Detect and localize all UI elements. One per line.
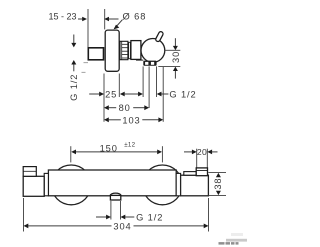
svg-text:Ø 68: Ø 68 [123, 12, 147, 22]
dimension 103 row [104, 117, 109, 122]
wall escutcheon (side view) [105, 30, 119, 71]
dimension 20: left arrow [184, 151, 193, 153]
bottom outlet G1/2: right arrow [121, 215, 126, 220]
bottom outlet dome [110, 193, 121, 198]
svg-text:80: 80 [119, 103, 131, 113]
dimension 30: top arrow [174, 38, 176, 46]
dimension 25 row: left arrow [89, 93, 100, 95]
svg-text:25: 25 [105, 90, 117, 100]
extension line 304 left [23, 198, 25, 232]
mixer bar body [48, 170, 176, 196]
G1/2 outlet leader arrow [157, 92, 162, 97]
knurled nut [120, 41, 128, 59]
vertical dimension of inlet union: top arrow [73, 35, 75, 44]
dimension 15-23 left arrow [78, 18, 83, 20]
svg-text:304: 304 [113, 221, 131, 231]
outlet union nut (dark) [143, 61, 156, 66]
dimension 38: top extension line [208, 172, 226, 174]
valve body block [131, 41, 141, 60]
bottom outlet extension lines [110, 201, 112, 220]
dimension 30: bottom extension line [158, 66, 180, 68]
dimension 20: right arrow [207, 150, 212, 155]
outlet nut facet windows [145, 62, 148, 65]
svg-text:150: 150 [100, 143, 118, 153]
extension line left union center [70, 146, 72, 162]
extension line right union center [161, 146, 163, 162]
dimension 38: down arrow [216, 191, 221, 195]
svg-text:G 1/2: G 1/2 [136, 213, 163, 223]
extension line handle front [162, 67, 164, 122]
extension line D (outlet right) [156, 66, 158, 97]
dimension 20: extension bars [196, 149, 198, 169]
left wall union escutcheon (circle) [51, 165, 91, 205]
svg-text:G 1/2: G 1/2 [69, 74, 79, 101]
right collar [176, 173, 180, 195]
svg-text:20: 20 [197, 147, 207, 157]
extension line C (outlet left) [142, 66, 144, 97]
wire: escutcheon back extension line [104, 9, 106, 29]
tick mark near square bottom [84, 62, 89, 64]
extension line A (escutcheon back) [103, 74, 105, 122]
extension line outlet axis [148, 66, 150, 108]
bottom outlet G1/2: left arrow [96, 216, 107, 218]
dimension 304 [24, 224, 29, 229]
leader line for diameter 68 [115, 20, 123, 29]
svg-text:103: 103 [122, 115, 140, 125]
extension line 304 right [208, 198, 210, 232]
hansgrohe logo (faint, bottom right) [231, 233, 243, 236]
temperature handle (left) [23, 176, 44, 196]
safety stop button inner line [23, 170, 36, 172]
valve neck ring [129, 42, 131, 58]
dimension 38: up arrow [216, 173, 221, 177]
body bottom lip line [136, 59, 143, 61]
handle circle (seen from side) [141, 39, 165, 63]
svg-text:30: 30 [171, 51, 181, 63]
extension line B (escutcheon front) [118, 74, 120, 98]
svg-text:15 - 23: 15 - 23 [48, 11, 76, 21]
tick mark above G1/2 label [82, 71, 86, 73]
vertical dimension of inlet union: bottom arrow [71, 60, 76, 65]
svg-text:G 1/2: G 1/2 [169, 90, 196, 100]
svg-text:±12: ±12 [124, 142, 135, 149]
dimension 38: bottom extension line [208, 195, 226, 197]
dimension 15-23 right arrow [104, 17, 109, 22]
elbow inner line [196, 170, 207, 172]
bottom outlet stub [110, 195, 120, 200]
right wall union escutcheon (circle) [143, 165, 183, 205]
dimension 150 line [76, 151, 158, 153]
wire: wall extension line [87, 9, 89, 48]
left collar [44, 173, 48, 195]
S-union square nut [88, 48, 103, 60]
handle grip lever [155, 31, 164, 42]
dimension 30: bottom arrow [173, 67, 178, 71]
outlet pipe to elbow [184, 172, 196, 176]
dimension 80 row [104, 105, 109, 110]
volume handle (right) [181, 175, 209, 196]
safety stop button [23, 167, 36, 177]
dimension 30: top extension line [165, 49, 180, 51]
svg-text:38: 38 [213, 178, 223, 190]
dimension B-C double arrow [120, 92, 125, 97]
shower outlet elbow [196, 168, 207, 176]
